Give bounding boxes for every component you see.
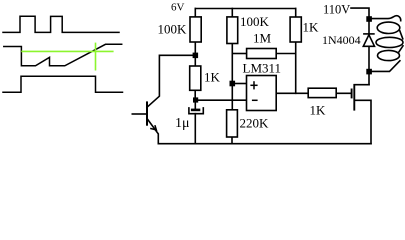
svg-text:100K: 100K (158, 21, 188, 36)
svg-text:1K: 1K (204, 70, 221, 85)
svg-text:100K: 100K (240, 14, 270, 29)
svg-text:6V: 6V (171, 2, 185, 14)
svg-text:1N4004: 1N4004 (322, 33, 361, 47)
svg-text:1μ: 1μ (175, 116, 190, 131)
svg-text:220K: 220K (240, 116, 270, 131)
svg-text:110V: 110V (323, 3, 350, 17)
svg-text:LM311: LM311 (243, 61, 282, 76)
svg-text:1K: 1K (303, 20, 320, 35)
svg-text:1K: 1K (310, 103, 327, 118)
svg-text:1M: 1M (253, 31, 272, 46)
